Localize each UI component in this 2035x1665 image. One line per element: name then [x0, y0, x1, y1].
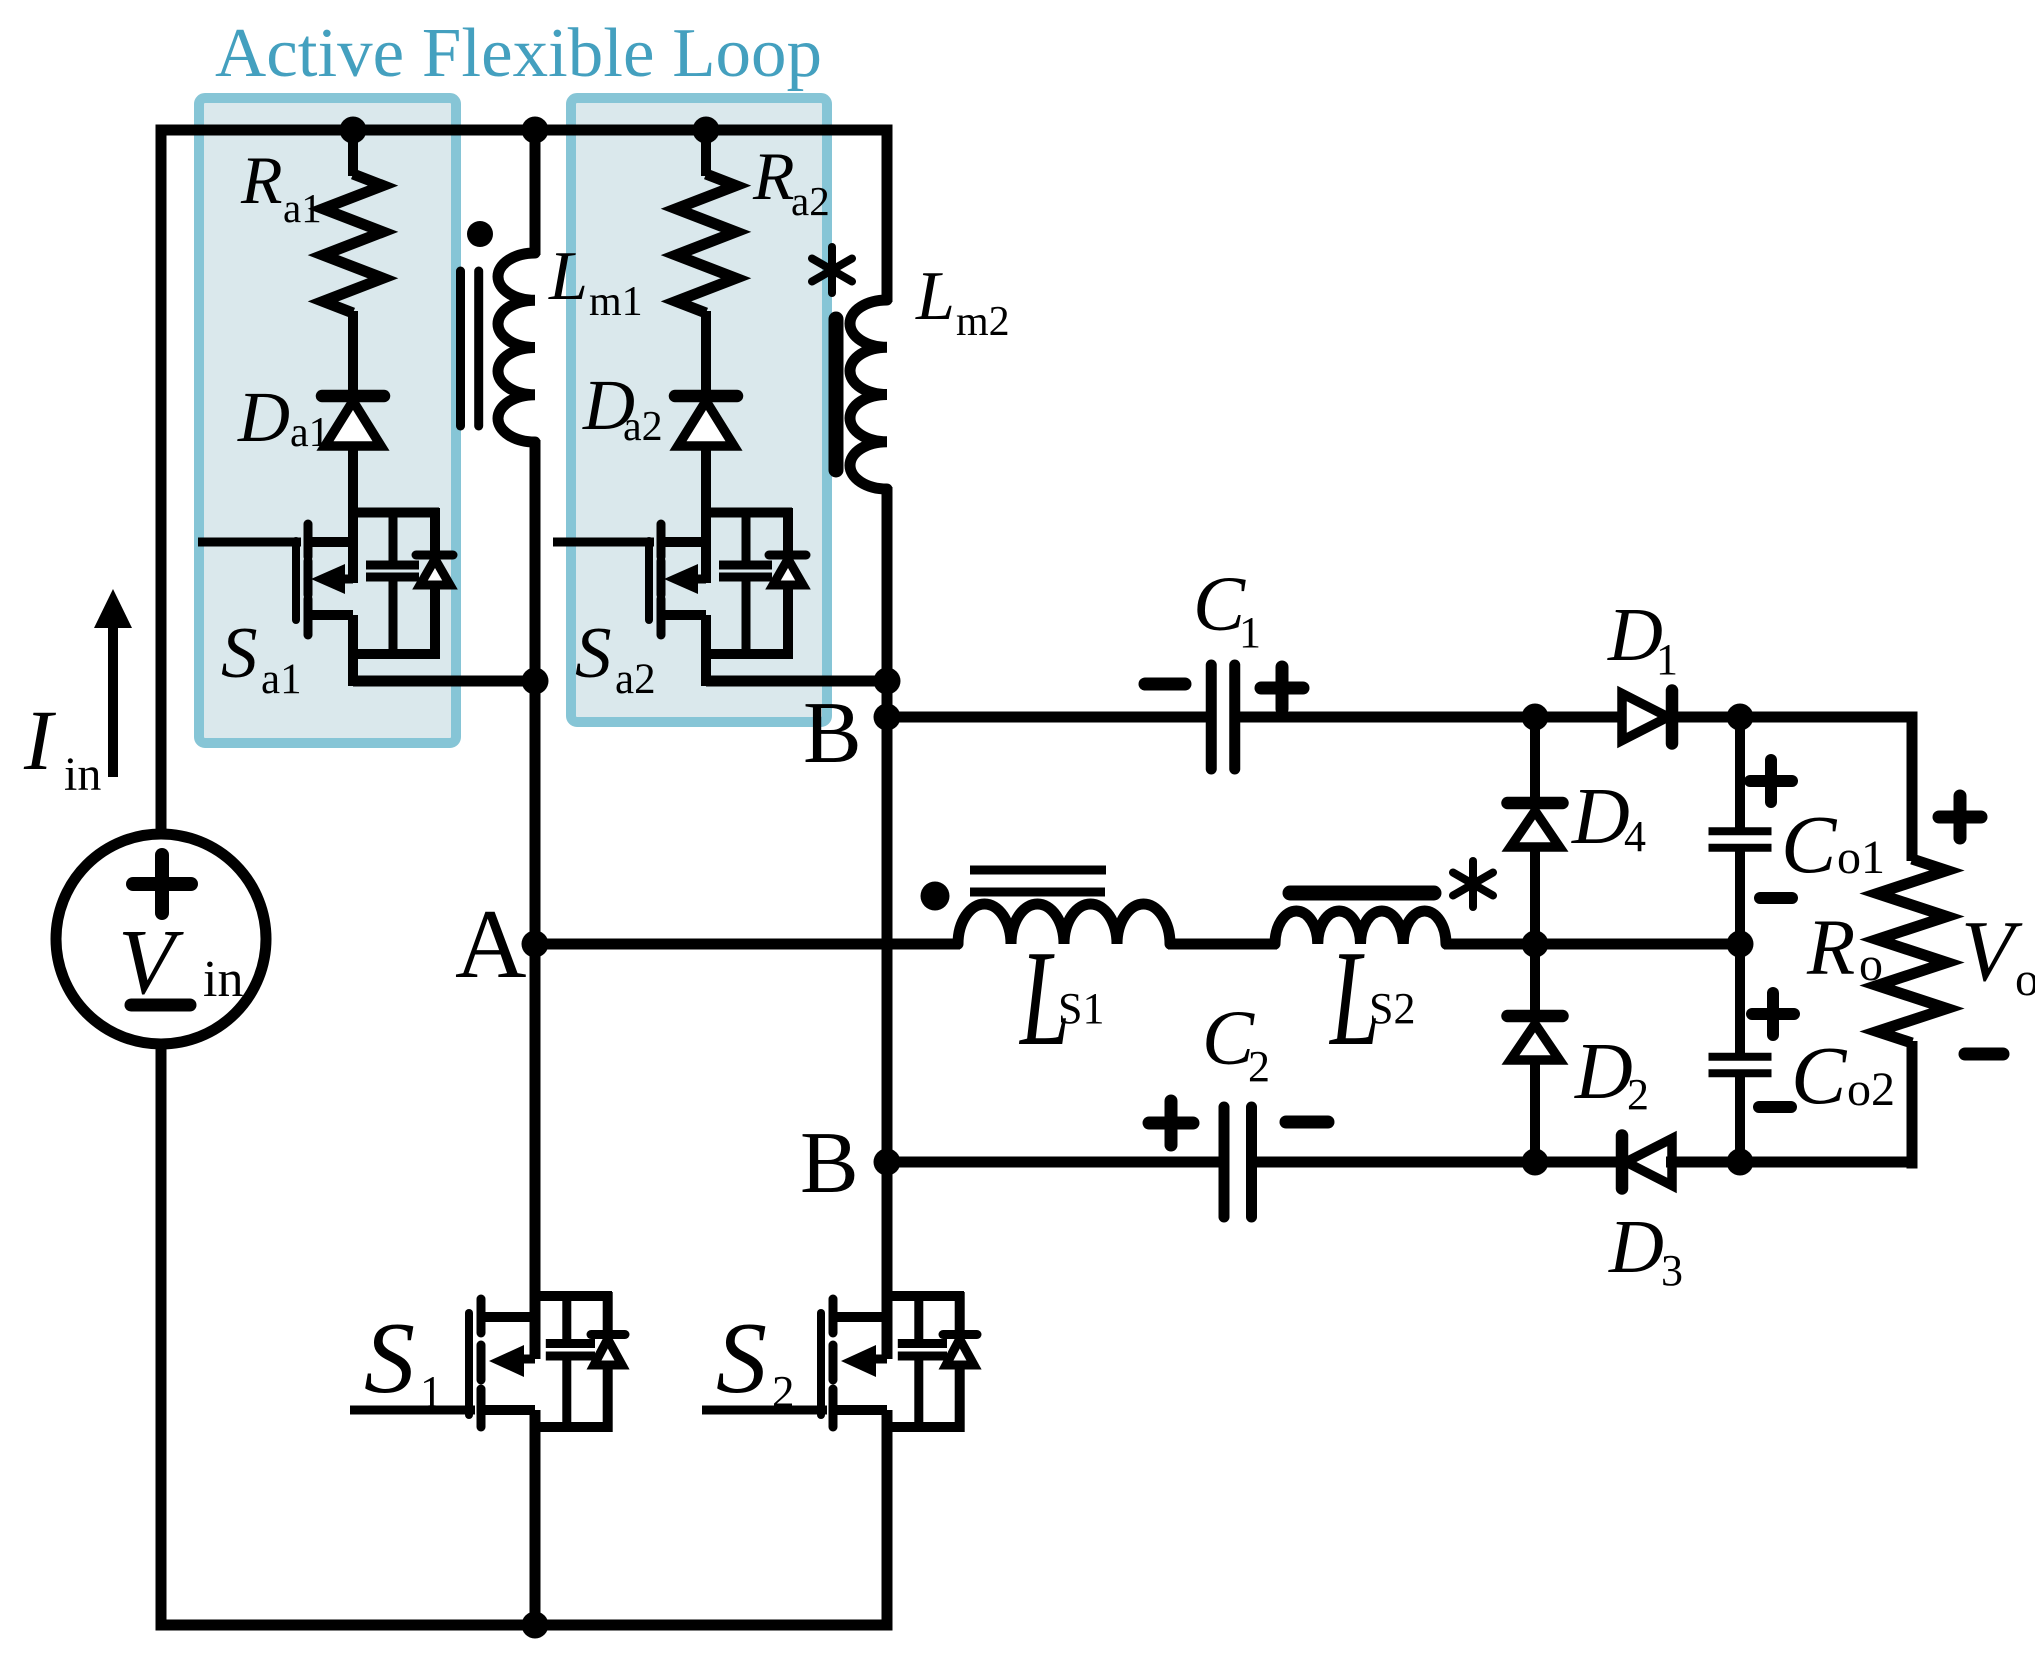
svg-text:in: in — [64, 748, 101, 801]
svg-text:I: I — [23, 692, 56, 788]
resistor Ro — [1806, 859, 1947, 1043]
svg-text:1: 1 — [420, 1367, 443, 1417]
svg-text:S: S — [221, 612, 258, 693]
svg-text:o: o — [1859, 938, 1883, 991]
node: C1/D1/D4 junction — [1522, 704, 1549, 731]
inductor Lm2 — [836, 125, 1010, 490]
wire: D1 cathode to output corner — [1668, 712, 1918, 723]
svg-text:S: S — [716, 1302, 767, 1415]
node: bottom rail junction — [522, 1612, 549, 1639]
svg-text:1: 1 — [1239, 608, 1261, 657]
wire: D4 to mid row — [1530, 844, 1540, 949]
capacitor C2 — [1149, 994, 1328, 1217]
node: mid row / Co1 Co2 junction — [1727, 931, 1754, 958]
resistor Ra2 — [676, 130, 830, 313]
svg-text:V: V — [118, 911, 184, 1014]
svg-text:D: D — [1608, 1205, 1664, 1289]
wire: D3 anode to Co2/right corner — [1666, 1157, 1918, 1168]
MOSFET Sa1 — [198, 449, 535, 703]
input current arrow Iin — [23, 589, 132, 801]
svg-text:o1: o1 — [1837, 831, 1885, 884]
wire Ra1 to Da1 — [348, 311, 358, 398]
svg-text:a2: a2 — [615, 656, 656, 703]
title: Active Flexible Loop — [215, 15, 822, 92]
label node B (top) — [803, 685, 862, 782]
svg-text:L: L — [548, 238, 588, 315]
node: D3 / Co2 junction — [1727, 1149, 1754, 1176]
wire: S1 source to bottom rail — [530, 1410, 541, 1630]
svg-text:Active Flexible Loop: Active Flexible Loop — [215, 15, 822, 92]
active flexible loop box 1 — [199, 98, 456, 743]
svg-text:S2: S2 — [1369, 984, 1415, 1033]
svg-text:o: o — [2015, 953, 2035, 1006]
diode Da2 — [582, 365, 737, 450]
svg-text:1: 1 — [1656, 635, 1678, 684]
voltage source Vin — [56, 834, 266, 1044]
output labels Vo — [1939, 796, 2035, 1054]
wire: right branch upper — [1907, 712, 1918, 862]
capacitor C1 — [1145, 560, 1303, 769]
capacitor Co1 — [1709, 760, 1886, 898]
wire: S2 source to bottom rail — [882, 1410, 893, 1631]
wire: Lm1 bottom to A node and S1 drain — [530, 440, 541, 1359]
svg-text:D: D — [1571, 773, 1630, 861]
svg-text:2: 2 — [1248, 1042, 1270, 1091]
wire: LS1 to LS2 — [1168, 939, 1277, 950]
svg-text:3: 3 — [1661, 1246, 1683, 1295]
wire: D2 branch upper — [1530, 944, 1540, 1021]
svg-text:2: 2 — [1627, 1070, 1649, 1119]
svg-text:R: R — [1806, 905, 1855, 992]
svg-text:a1: a1 — [290, 410, 330, 456]
wire: D2 to B bottom row — [1530, 1058, 1540, 1168]
svg-text:V: V — [1961, 902, 2023, 999]
wire: D4 branch upper — [1530, 717, 1540, 808]
coupling mark * for LS2 — [1453, 861, 1493, 907]
wire: bottom rail — [156, 1044, 893, 1631]
diode D2 — [1508, 1016, 1650, 1119]
node: Sa2 source junction — [874, 668, 901, 695]
wire: top rail — [156, 125, 893, 840]
svg-text:S: S — [364, 1302, 415, 1415]
node: top rail / Lm1 junction — [522, 117, 549, 144]
resistor Ra1 — [240, 130, 383, 313]
node: D1 cathode / Co1 junction — [1727, 704, 1754, 731]
svg-text:a1: a1 — [283, 185, 322, 231]
svg-text:D: D — [1607, 593, 1663, 677]
node A — [455, 890, 549, 999]
wire: Co2 to B bottom row — [1735, 1076, 1745, 1168]
node B bottom junction dot — [874, 1149, 901, 1176]
svg-text:a2: a2 — [791, 178, 830, 224]
wire: B bottom row left of C2 — [887, 1157, 1219, 1168]
svg-text:A: A — [455, 890, 527, 999]
svg-text:a2: a2 — [623, 404, 663, 450]
svg-text:L: L — [915, 258, 955, 335]
svg-text:S1: S1 — [1058, 984, 1104, 1033]
svg-text:R: R — [752, 138, 795, 214]
svg-text:C: C — [1781, 798, 1838, 890]
wire: C1 to D1 anode — [1239, 712, 1627, 723]
MOSFET S2 — [702, 1292, 977, 1432]
svg-text:B: B — [803, 685, 862, 782]
wire: A row to LS1 — [535, 939, 960, 950]
svg-text:in: in — [203, 951, 243, 1008]
coupling mark * for Lm2 — [812, 247, 852, 293]
active flexible loop box 2 — [571, 98, 827, 722]
svg-text:D: D — [237, 377, 290, 457]
wire: Co1 branch — [1735, 717, 1745, 829]
svg-text:C: C — [1791, 1029, 1848, 1121]
wire: C2 to D3 cathode — [1256, 1157, 1627, 1168]
wire: right branch lower — [1907, 1041, 1918, 1169]
node: C2/D2/D3 junction — [1522, 1149, 1549, 1176]
svg-text:o2: o2 — [1847, 1063, 1895, 1116]
coupled inductor LS2 — [1275, 893, 1446, 1075]
diode D1 — [1607, 593, 1678, 744]
node: mid row / D4 D2 junction — [1522, 931, 1549, 958]
diode D3 — [1608, 1136, 1683, 1296]
svg-text:D: D — [1574, 1028, 1633, 1116]
node: Sa1 source junction — [522, 668, 549, 695]
svg-text:S: S — [575, 612, 612, 693]
label node B (bottom) — [800, 1115, 859, 1212]
wire Ra2 to Da2 — [701, 311, 711, 398]
wire: B top row left of C1 — [887, 712, 1207, 723]
coupled inductor LS1 — [921, 870, 1171, 1075]
svg-text:B: B — [800, 1115, 859, 1212]
svg-text:2: 2 — [772, 1367, 795, 1417]
svg-text:m2: m2 — [956, 299, 1010, 345]
inductor Lm1 — [461, 130, 643, 442]
svg-text:4: 4 — [1624, 812, 1646, 861]
svg-text:R: R — [240, 142, 283, 218]
wire: Lm2 bottom through B node to S2 — [882, 487, 893, 1359]
svg-text:a1: a1 — [261, 656, 302, 703]
diode D4 — [1508, 773, 1647, 861]
node B top junction dot — [874, 704, 901, 731]
MOSFET S1 — [350, 1292, 625, 1432]
svg-text:m1: m1 — [589, 279, 643, 325]
wire: Co2 branch — [1735, 942, 1745, 1055]
diode Da1 — [237, 377, 384, 457]
wire: Co1 to mid row — [1735, 850, 1745, 947]
node: top rail / Ra2 junction — [693, 117, 720, 144]
wire: LS2 to rectifier — [1444, 939, 1746, 950]
MOSFET Sa2 — [553, 449, 887, 703]
capacitor Co2 — [1709, 993, 1896, 1121]
node: top rail / Ra1 junction — [340, 117, 367, 144]
